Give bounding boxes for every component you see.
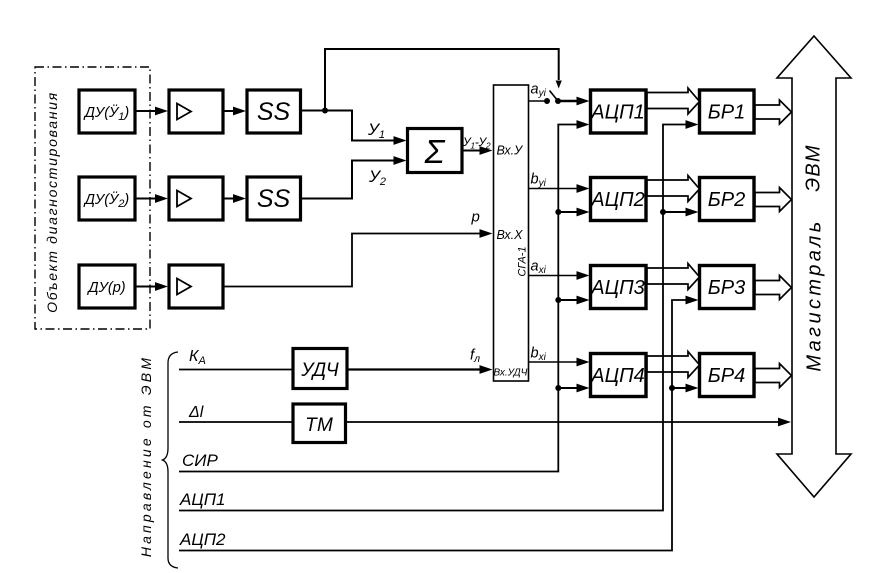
label АЦП2 (line) [179, 530, 226, 549]
sensor ДУ(Ӱ2) [79, 177, 135, 220]
label У2 [368, 167, 386, 188]
svg-text:SS: SS [257, 185, 291, 213]
register БР2 [700, 178, 755, 221]
label Объект диагностирования [44, 91, 60, 313]
svg-text:АЦП2: АЦП2 [179, 530, 226, 549]
wire Δl→ТМ [179, 421, 293, 423]
label Магистраль on bus [804, 218, 826, 371]
switch blade at a_yi [550, 91, 559, 102]
node СИР-АЦП3 [555, 297, 561, 303]
register БР4 [700, 354, 755, 397]
svg-text:СИР: СИР [182, 451, 218, 470]
wire stub СИР→АЦП2 [558, 208, 589, 217]
wire stub АЦП2→БР4 [672, 384, 699, 393]
svg-text:АЦП1: АЦП1 [179, 490, 225, 509]
block SS2 [247, 177, 301, 220]
ADC АЦП2 [590, 178, 646, 221]
svg-text:ЭВМ: ЭВМ [803, 144, 825, 191]
wide hollow arrow АЦП3→БР3 [647, 264, 700, 290]
wire Σ→СГА-1 (У1-У2 → Вх.У) [462, 146, 493, 155]
svg-text:СГА-1: СГА-1 [517, 246, 529, 276]
label КА [189, 348, 206, 367]
amplifier A1 [169, 90, 223, 133]
svg-text:БР4: БР4 [708, 365, 745, 387]
wire SS1→Σ (У1) [301, 111, 407, 145]
svg-text:БР2: БР2 [708, 189, 745, 211]
dashed box Объект диагностирования [35, 67, 150, 329]
register БР1 [700, 90, 755, 133]
svg-text:Вх.Х: Вх.Х [497, 228, 524, 242]
node on SS1 output [322, 108, 328, 114]
wide hollow arrow АЦП4→БР4 [647, 352, 700, 378]
svg-text:Вх.УДЧ: Вх.УДЧ [494, 368, 528, 379]
ADC АЦП1 [590, 90, 646, 133]
label ЭВМ on bus [803, 144, 825, 191]
wire A1→SS1 [223, 107, 246, 116]
svg-text:АЦП2: АЦП2 [590, 189, 645, 211]
node АЦП1-БР2 [660, 209, 666, 215]
label fл [470, 347, 480, 366]
wide hollow arrow БР2→bus [755, 188, 792, 212]
sensor ДУ(р) [79, 265, 135, 308]
wire ДУ(Ӱ1)→A1 [135, 107, 168, 116]
wire a_yi СГА-1→АЦП1 [529, 97, 590, 106]
wide hollow arrow БР4→bus [755, 364, 792, 388]
svg-text:БР1: БР1 [708, 102, 745, 124]
wire calibration SS1→switch (top) [325, 49, 562, 111]
ADC АЦП3 [590, 266, 646, 309]
svg-text:АЦП3: АЦП3 [590, 277, 645, 299]
brace for ЭВМ outputs [163, 352, 179, 568]
wire A2→SS2 [223, 194, 246, 203]
wire АЦП1 net (riser + stub to БР1) [179, 120, 699, 510]
summator Σ [408, 129, 463, 173]
bus Магистраль ЭВМ (double arrow) [777, 36, 851, 497]
label b_yi [531, 172, 547, 190]
wire ДУ(Ӱ2)→A2 [135, 194, 168, 203]
register БР3 [700, 266, 755, 309]
label У1-У2 [462, 135, 491, 151]
wire b_yi СГА-1→АЦП2 [529, 184, 590, 193]
svg-text:р: р [471, 209, 480, 226]
node СИР-АЦП4 [555, 385, 561, 391]
label р [471, 209, 480, 226]
svg-text:Σ: Σ [424, 133, 446, 170]
wire stub СИР→АЦП3 [558, 296, 589, 305]
wire КА→УДЧ [179, 369, 293, 371]
svg-text:ДУ(р): ДУ(р) [86, 280, 125, 296]
block СГА-1 [494, 85, 529, 381]
svg-text:SS: SS [257, 98, 291, 126]
wide hollow arrow АЦП2→БР2 [647, 176, 700, 202]
svg-text:ТМ: ТМ [305, 415, 333, 436]
wide hollow arrow АЦП1→БР1 [647, 88, 700, 114]
label АЦП1 (line) [179, 490, 225, 509]
wire СИР net (riser + stub to АЦП1) [179, 120, 590, 471]
wire a_xi СГА-1→АЦП3 [529, 271, 590, 280]
wide hollow arrow БР3→bus [755, 276, 792, 300]
wire stub СИР→АЦП4 [558, 384, 589, 393]
wire A3→СГА-1 (р → Вх.Х) [223, 229, 493, 286]
wire АЦП2 net (riser + stub to БР3) [179, 296, 699, 551]
amplifier A3 [169, 265, 223, 308]
wire b_xi СГА-1→АЦП4 [529, 358, 590, 367]
node a_yi switch junction [544, 98, 561, 104]
node СИР-АЦП2 [555, 209, 561, 215]
svg-text:УДЧ: УДЧ [300, 360, 339, 381]
block УДЧ [293, 349, 347, 389]
label a_xi [531, 259, 547, 277]
wire SS2→Σ (У2) [301, 156, 407, 198]
svg-text:Объект диагностирования: Объект диагностирования [44, 91, 60, 313]
svg-text:Магистраль: Магистраль [804, 218, 826, 371]
wire ДУ(р)→A3 [135, 282, 168, 291]
label Δl [188, 404, 204, 421]
label У1 [367, 120, 385, 141]
wide hollow arrow БР1→bus [755, 100, 792, 124]
label b_xi [531, 346, 547, 364]
wire УДЧ→СГА-1 (fл → Вх.УДЧ) [347, 365, 493, 374]
amplifier A2 [169, 177, 223, 220]
node АЦП2-БР4 [669, 385, 675, 391]
svg-text:Направление от ЭВМ: Направление от ЭВМ [138, 355, 154, 557]
svg-text:АЦП4: АЦП4 [590, 365, 645, 387]
wire stub АЦП1→БР2 [663, 208, 699, 217]
label Направление от ЭВМ [138, 355, 154, 557]
label a_yi [531, 82, 547, 100]
sensor ДУ(Ӱ1) [79, 90, 135, 133]
svg-text:Δl: Δl [188, 404, 204, 421]
label СИР [182, 451, 218, 470]
block SS1 [247, 90, 301, 133]
block ТМ [293, 404, 346, 443]
svg-text:БР3: БР3 [708, 277, 745, 299]
svg-text:Вх.У: Вх.У [497, 144, 525, 158]
ADC АЦП4 [590, 354, 646, 397]
svg-text:АЦП1: АЦП1 [590, 102, 645, 124]
wire ТМ→bus [346, 418, 792, 427]
